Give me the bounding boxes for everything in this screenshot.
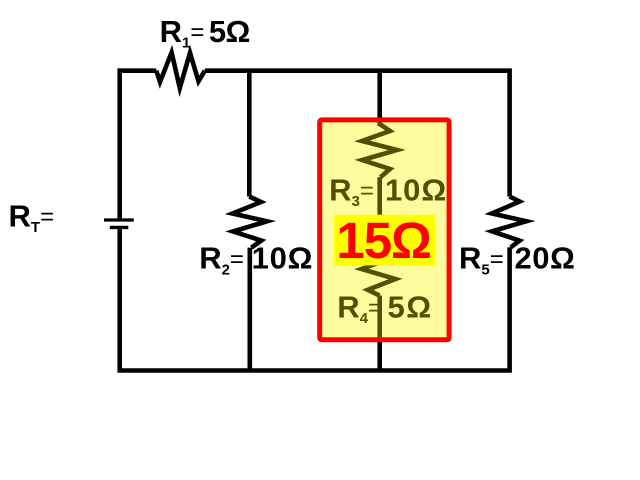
wire top-left segment xyxy=(120,71,157,219)
wire R3 upper stub (olive under overlay) xyxy=(377,120,382,126)
svg-text:5Ω: 5Ω xyxy=(388,290,433,325)
svg-text:5Ω: 5Ω xyxy=(209,14,251,49)
battery long plate (positive) xyxy=(104,218,134,221)
svg-text:R4=: R4= xyxy=(337,290,382,328)
svg-text:15Ω: 15Ω xyxy=(336,212,432,269)
resistor R3 xyxy=(362,124,397,177)
highlight rect behind 15 ohm (bright yellow) xyxy=(334,215,435,266)
svg-text:10Ω: 10Ω xyxy=(252,241,313,276)
svg-text:10Ω: 10Ω xyxy=(385,173,446,208)
resistor R4 xyxy=(362,252,396,296)
highlight box red border xyxy=(320,120,449,340)
svg-text:20Ω: 20Ω xyxy=(515,241,575,276)
wire R2 branch lower xyxy=(248,248,253,371)
wire between R3 and R4 (olive) xyxy=(377,177,382,253)
wire R2 branch upper xyxy=(247,71,252,197)
wire middle branch (R3/R4) full xyxy=(377,71,382,371)
resistor R5 xyxy=(492,197,527,248)
svg-text:R1=: R1= xyxy=(160,14,205,52)
wire top segment right of R1 xyxy=(205,71,510,197)
wire left-bottom and bottom and right-lower segment xyxy=(120,229,510,371)
battery short plate (negative) xyxy=(110,226,129,229)
wire below R4 (olive) xyxy=(377,296,382,341)
resistor R2 xyxy=(233,197,268,248)
resistor R1 xyxy=(156,53,205,89)
svg-text:R2=: R2= xyxy=(199,241,244,279)
svg-text:R5=: R5= xyxy=(459,241,504,279)
highlight box fill (pale yellow) xyxy=(322,122,447,337)
svg-text:R3=: R3= xyxy=(329,173,374,211)
